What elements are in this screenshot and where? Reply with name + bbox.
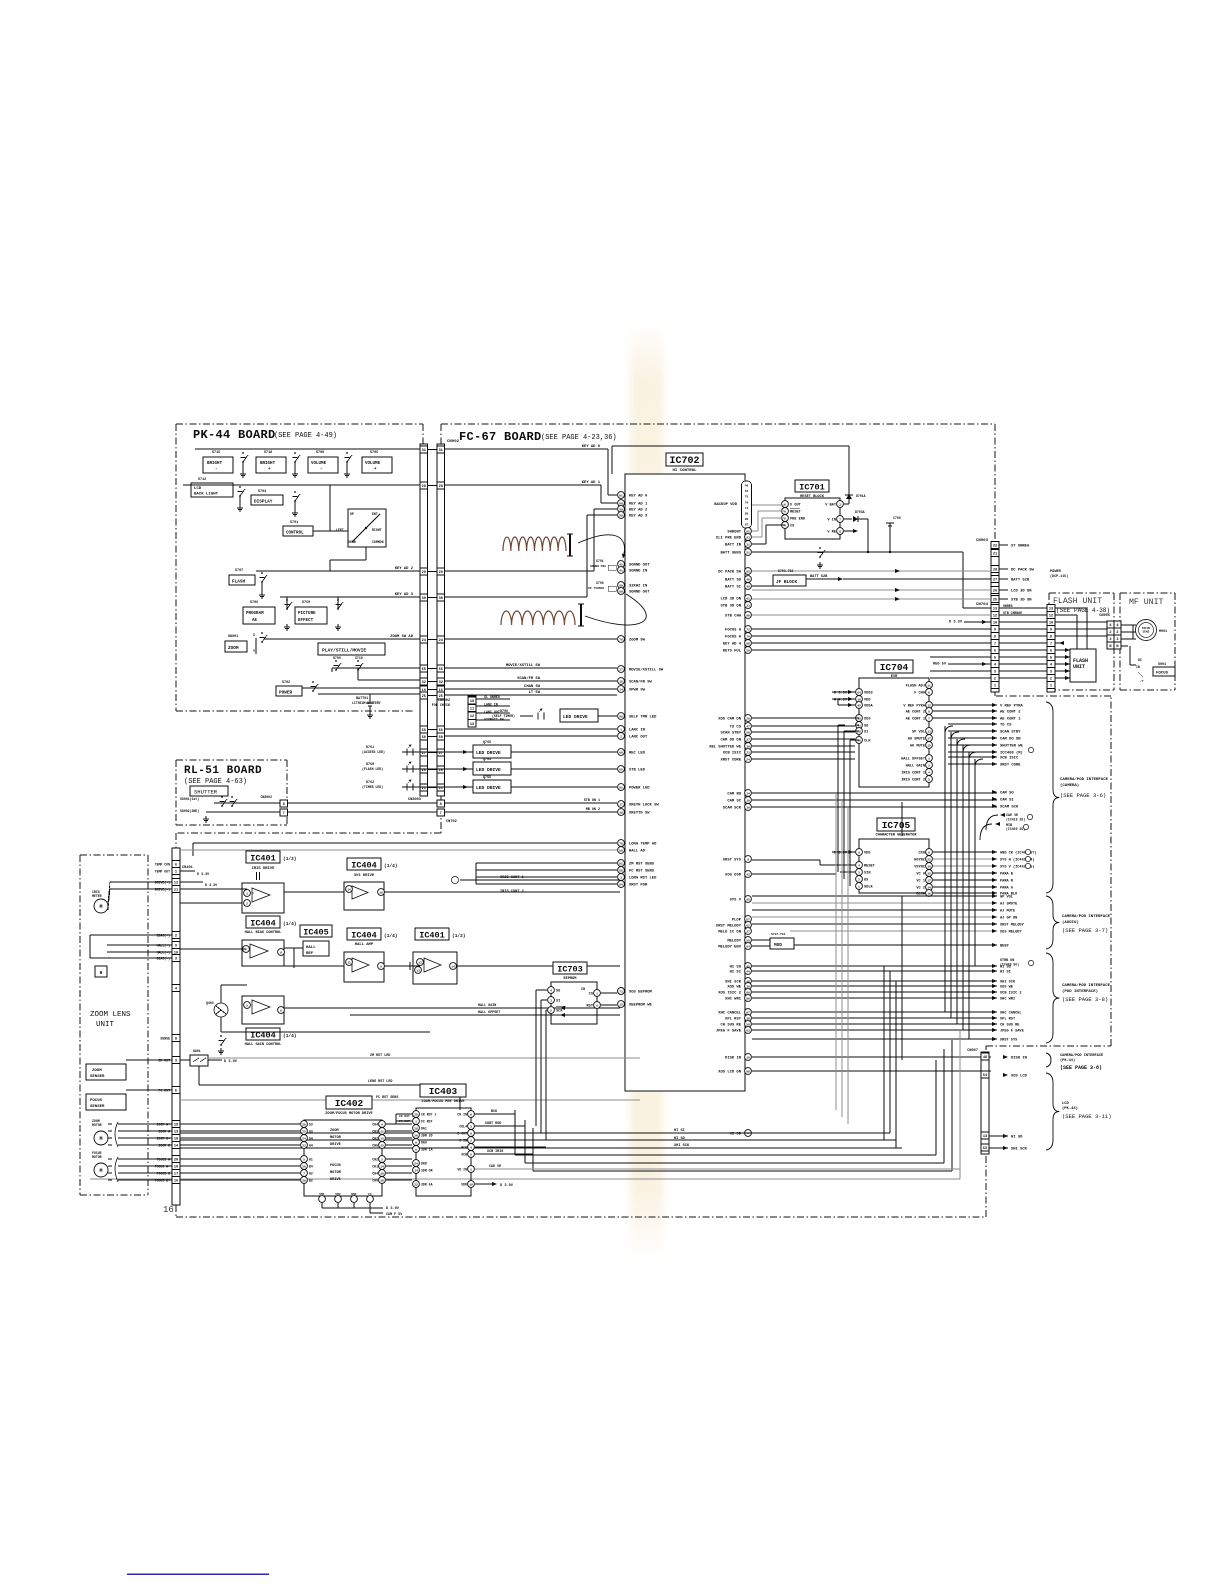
svg-text:A2: A2 [309, 1172, 313, 1176]
svg-text:55: 55 [422, 668, 426, 672]
svg-text:ENT: ENT [372, 512, 378, 516]
svg-text:(SEE PAGE 4-63): (SEE PAGE 4-63) [184, 778, 247, 786]
svg-text:ICC408 (M): ICC408 (M) [1000, 751, 1023, 756]
svg-text:FLASH ADJ: FLASH ADJ [906, 685, 925, 689]
svg-text:2: 2 [381, 1158, 383, 1161]
svg-text:23: 23 [302, 1144, 306, 1147]
svg-text:65: 65 [619, 768, 623, 771]
svg-text:CH0: CH0 [372, 1179, 378, 1183]
svg-text:IRIS DRIVE: IRIS DRIVE [252, 867, 276, 871]
svg-text:(SEE PAGE 3-7): (SEE PAGE 3-7) [1062, 927, 1108, 934]
svg-text:HI SO: HI SO [674, 1137, 686, 1141]
svg-text:RNF: RNF [351, 1193, 357, 1196]
svg-text:IC401: IC401 [419, 931, 445, 941]
svg-text:27: 27 [439, 752, 443, 756]
svg-text:8: 8 [839, 530, 841, 533]
svg-text:17: 17 [927, 737, 931, 740]
svg-text:HI SI: HI SI [1000, 971, 1011, 975]
svg-text:SONND OUT: SONND OUT [629, 564, 650, 568]
svg-text:10: 10 [469, 1183, 473, 1186]
svg-text:13: 13 [174, 1131, 178, 1135]
svg-text:S708: S708 [316, 451, 324, 455]
svg-text:LONG TEMP AD: LONG TEMP AD [629, 843, 657, 847]
svg-text:12: 12 [174, 882, 178, 886]
svg-text:XRST MELODY: XRST MELODY [716, 925, 742, 929]
svg-text:(1/4): (1/4) [283, 921, 297, 927]
svg-text:CB: CB [581, 987, 585, 991]
svg-text:56: 56 [439, 729, 443, 733]
svg-text:CN906: CN906 [1099, 614, 1110, 618]
svg-text:6: 6 [175, 864, 177, 868]
svg-text:CK RST 1: CK RST 1 [399, 1115, 414, 1118]
svg-text:27: 27 [422, 752, 426, 756]
svg-text:90: 90 [619, 584, 623, 587]
svg-text:(CAMERA): (CAMERA) [1060, 783, 1079, 788]
svg-text:2: 2 [928, 764, 930, 767]
svg-text:VDD3: VDD3 [864, 692, 873, 696]
svg-text:AU SMUTE: AU SMUTE [908, 738, 926, 742]
svg-text:FC RST SENS: FC RST SENS [376, 1096, 398, 1100]
svg-text:2: 2 [994, 678, 996, 682]
svg-text:FC: FC [368, 1193, 372, 1196]
svg-text:2: 2 [246, 902, 248, 905]
svg-text:AJ GP ON: AJ GP ON [1000, 917, 1017, 921]
svg-text:IC704: IC704 [880, 662, 909, 673]
svg-text:MELODY ENV: MELODY ENV [718, 946, 742, 950]
svg-text:6: 6 [928, 851, 930, 854]
svg-text:CN8002: CN8002 [261, 795, 273, 799]
svg-text:HALL OFFSET: HALL OFFSET [478, 1011, 500, 1015]
svg-text:6: 6 [928, 691, 930, 694]
svg-text:BEEP: BEEP [1000, 945, 1009, 949]
svg-text:98: 98 [746, 1070, 750, 1073]
svg-text:D703A: D703A [855, 510, 865, 514]
svg-text:S8002(2ND): S8002(2ND) [180, 809, 199, 813]
svg-text:MELODY: MELODY [727, 940, 741, 944]
svg-text:POWER LED: POWER LED [629, 787, 650, 791]
svg-text:(TIMER LED): (TIMER LED) [362, 785, 383, 789]
svg-text:7: 7 [1050, 643, 1052, 647]
svg-text:8: 8 [994, 636, 996, 640]
svg-text:VM1: VM1 [319, 1193, 325, 1196]
svg-text:1: 1 [858, 885, 860, 888]
svg-text:CH1: CH1 [372, 1165, 378, 1169]
svg-text:S706: S706 [250, 601, 258, 605]
svg-text:7: 7 [283, 812, 285, 816]
svg-text:13: 13 [927, 730, 931, 733]
svg-text:76: 76 [619, 638, 623, 641]
svg-text:5: 5 [303, 1158, 305, 1161]
svg-text:10: 10 [857, 698, 861, 701]
svg-text:SENSER: SENSER [90, 1105, 105, 1109]
svg-text:10: 10 [380, 1179, 384, 1182]
svg-text:S712: S712 [198, 478, 206, 482]
svg-text:DOWN: DOWN [348, 540, 356, 544]
svg-text:3V3 DRIVE: 3V3 DRIVE [354, 874, 375, 878]
svg-text:LANC IN: LANC IN [629, 729, 646, 733]
svg-text:HALL GAIN: HALL GAIN [478, 1004, 496, 1008]
svg-text:STB LED: STB LED [629, 769, 646, 773]
svg-text:2: 2 [620, 735, 622, 738]
svg-text:HI CONTROL: HI CONTROL [672, 469, 697, 473]
svg-text:XPL RST: XPL RST [725, 1018, 742, 1022]
svg-text:9: 9 [175, 945, 177, 949]
svg-text:CAMERA/POD INTERFACE: CAMERA/POD INTERFACE [1060, 1053, 1104, 1058]
svg-text:8: 8 [440, 803, 442, 807]
svg-text:86: 86 [745, 518, 749, 521]
svg-text:Q755: Q755 [483, 776, 491, 780]
svg-text:EEPROM: EEPROM [564, 977, 577, 981]
svg-text:S IN: S IN [459, 1139, 467, 1143]
svg-text:17: 17 [174, 1173, 178, 1177]
svg-text:REC LED: REC LED [629, 752, 646, 756]
svg-text:XCB ISIC 2: XCB ISIC 2 [1000, 992, 1022, 996]
svg-text:S8001(1st): S8001(1st) [180, 797, 199, 801]
svg-text:76: 76 [745, 501, 749, 504]
svg-text:XLI PRE END: XLI PRE END [716, 537, 742, 541]
svg-text:FC-67 BOARD: FC-67 BOARD [459, 430, 542, 444]
svg-text:SONND MIC: SONND MIC [590, 565, 606, 568]
svg-text:VDD: VDD [864, 852, 871, 856]
svg-text:2: 2 [1109, 631, 1111, 635]
svg-text:26: 26 [302, 1165, 306, 1168]
svg-text:ZOOM SW AD: ZOOM SW AD [390, 635, 414, 639]
svg-text:14: 14 [414, 1169, 418, 1172]
svg-text:24: 24 [746, 758, 750, 761]
svg-text:CH3: CH3 [372, 1130, 378, 1134]
svg-text:CN903: CN903 [976, 539, 989, 543]
svg-text:6: 6 [1050, 650, 1052, 654]
svg-text:VOLUME: VOLUME [311, 462, 327, 466]
svg-text:2: 2 [550, 1009, 552, 1012]
svg-text:(SEE PAGE 3-8): (SEE PAGE 3-8) [1062, 996, 1108, 1003]
svg-text:D 4.3V: D 4.3V [205, 884, 218, 888]
svg-text:20: 20 [174, 1159, 178, 1163]
svg-text:XCAM SCK: XCAM SCK [1000, 806, 1019, 810]
svg-text:HALL GAIN CONTROL: HALL GAIN CONTROL [245, 1043, 282, 1047]
svg-text:43: 43 [746, 873, 750, 876]
svg-text:MB ON 2: MB ON 2 [586, 808, 600, 812]
svg-text:CAM DO ON: CAM DO ON [720, 739, 741, 743]
svg-text:TO CS: TO CS [1000, 724, 1012, 728]
svg-text:18: 18 [619, 680, 623, 683]
svg-text:3: 3 [1109, 638, 1111, 642]
svg-text:9: 9 [380, 965, 382, 968]
svg-text:31: 31 [422, 449, 426, 453]
svg-text:13: 13 [1049, 608, 1053, 612]
svg-text:DAD: DAD [421, 1162, 427, 1166]
svg-text:15: 15 [619, 1003, 623, 1006]
svg-text:93: 93 [746, 536, 750, 539]
svg-text:IC705: IC705 [882, 820, 911, 831]
svg-text:3DR 1A: 3DR 1A [421, 1148, 433, 1152]
svg-text:12: 12 [1049, 615, 1053, 619]
svg-text:N: N [1109, 645, 1111, 649]
svg-text:DC: DC [1138, 658, 1142, 662]
svg-text:D701A: D701A [856, 494, 866, 498]
svg-text:CLK: CLK [864, 740, 871, 744]
svg-text:FOCUS: FOCUS [90, 1099, 103, 1103]
svg-text:26: 26 [414, 1134, 418, 1137]
svg-text:SI: SI [864, 731, 868, 735]
svg-text:SHUTTER: SHUTTER [194, 789, 218, 796]
svg-text:S4: S4 [309, 1137, 313, 1141]
svg-text:SONND IN: SONND IN [629, 570, 648, 574]
svg-text:16: 16 [174, 1180, 178, 1184]
svg-text:SOLK: SOLK [864, 886, 873, 890]
svg-text:94: 94 [746, 945, 750, 948]
svg-text:LED DRIVE: LED DRIVE [476, 750, 501, 756]
svg-text:CK IN: CK IN [457, 1113, 467, 1117]
svg-text:GA01: GA01 [193, 1049, 201, 1053]
svg-text:COL4: COL4 [459, 1125, 467, 1129]
svg-text:87: 87 [746, 918, 750, 921]
svg-text:DA0: DA0 [421, 1141, 427, 1145]
svg-text:LANC OUT: LANC OUT [629, 736, 648, 740]
svg-text:DC PACK SW: DC PACK SW [1011, 569, 1035, 573]
svg-text:CXO: CXO [919, 852, 926, 856]
svg-text:11: 11 [380, 1130, 384, 1133]
svg-text:73: 73 [745, 507, 749, 510]
svg-text:AE CONT 1: AE CONT 1 [1000, 718, 1021, 722]
svg-text:CN9002: CN9002 [438, 699, 450, 703]
svg-text:BRIGHT: BRIGHT [260, 462, 276, 466]
svg-text:XOS EEPROM: XOS EEPROM [629, 991, 653, 995]
svg-text:4: 4 [470, 1146, 472, 1149]
svg-text:CH5: CH5 [372, 1144, 378, 1148]
svg-text:(IC418 28): (IC418 28) [1006, 818, 1025, 822]
svg-text:S704: S704 [258, 490, 266, 494]
svg-text:55: 55 [746, 939, 750, 942]
svg-text:17: 17 [619, 803, 623, 806]
svg-text:70: 70 [746, 635, 750, 638]
svg-text:9: 9 [994, 629, 996, 633]
svg-text:FOCUS: FOCUS [1156, 672, 1169, 676]
svg-text:61: 61 [745, 490, 749, 493]
svg-text:14: 14 [619, 688, 623, 691]
svg-text:EFFECT: EFFECT [298, 619, 314, 623]
svg-text:MOTOR: MOTOR [92, 1123, 102, 1127]
svg-text:MELO IC ON: MELO IC ON [718, 931, 742, 935]
svg-text:V RE: V RE [827, 531, 836, 535]
svg-text:A1: A1 [309, 1158, 313, 1162]
svg-text:HALL: HALL [306, 946, 316, 950]
svg-text:XPWR SW: XPWR SW [629, 689, 646, 693]
svg-text:80: 80 [619, 849, 623, 852]
svg-text:DISK IN: DISK IN [1011, 1057, 1028, 1061]
svg-text:HALL GAIN: HALL GAIN [906, 765, 925, 769]
svg-text:44: 44 [746, 970, 750, 973]
svg-text:M: M [99, 904, 102, 910]
svg-text:A3: A3 [309, 1130, 313, 1134]
svg-text:SENSER: SENSER [90, 1075, 105, 1079]
svg-text:8: 8 [175, 1038, 177, 1042]
svg-text:(1/4): (1/4) [384, 933, 398, 939]
svg-text:XOS LCD ON: XOS LCD ON [718, 1071, 742, 1075]
svg-text:VDDA: VDDA [864, 705, 873, 709]
svg-text:9: 9 [470, 1132, 472, 1135]
svg-text:56: 56 [422, 729, 426, 733]
svg-text:91: 91 [619, 786, 623, 789]
svg-text:64: 64 [857, 691, 861, 694]
svg-text:3DR 3D: 3DR 3D [421, 1134, 433, 1138]
svg-text:M: M [99, 1136, 102, 1142]
svg-text:CH2: CH2 [372, 1158, 378, 1162]
svg-text:7: 7 [303, 1172, 305, 1175]
svg-text:JPEG F SAVE: JPEG F SAVE [1000, 1030, 1025, 1034]
svg-text:5: 5 [470, 1153, 472, 1156]
svg-text:48: 48 [983, 1056, 987, 1060]
svg-text:61: 61 [619, 494, 623, 497]
svg-text:3: 3 [1116, 638, 1118, 642]
svg-text:2: 2 [175, 935, 177, 939]
svg-text:XPL RST: XPL RST [1000, 1018, 1016, 1022]
svg-text:BACKUP VDD: BACKUP VDD [714, 503, 738, 507]
svg-text:CH4: CH4 [372, 1123, 378, 1127]
svg-text:S718: S718 [264, 451, 272, 455]
svg-text:KEY AD 0: KEY AD 0 [629, 495, 648, 499]
svg-text:AE CONT 2: AE CONT 2 [906, 711, 925, 715]
svg-text:26: 26 [422, 769, 426, 773]
svg-text:10: 10 [1049, 622, 1053, 626]
svg-text:D 3-3V: D 3-3V [197, 873, 210, 877]
svg-text:CAMERA/POD INTERFACE: CAMERA/POD INTERFACE [1062, 983, 1111, 988]
svg-text:82: 82 [619, 862, 623, 865]
svg-text:BATT SI: BATT SI [725, 586, 741, 590]
svg-text:AE: AE [252, 619, 258, 623]
svg-text:SCAN/FR SW: SCAN/FR SW [629, 680, 653, 685]
svg-text:XCB: XCB [461, 1153, 467, 1157]
svg-text:20: 20 [746, 717, 750, 720]
svg-text:40: 40 [746, 578, 750, 581]
svg-text:VDD: VDD [461, 1183, 467, 1187]
svg-text:XOS WE: XOS WE [1000, 986, 1014, 990]
svg-text:GND CK (IC469 57): GND CK (IC469 57) [1000, 851, 1037, 856]
svg-text:46: 46 [745, 485, 749, 488]
svg-text:(AUDIO): (AUDIO) [1062, 920, 1079, 925]
svg-text:58: 58 [746, 1023, 750, 1026]
svg-text:CAM DO ON: CAM DO ON [1000, 738, 1021, 742]
svg-text:28: 28 [993, 569, 997, 573]
svg-text:VC 0: VC 0 [916, 873, 925, 877]
svg-text:S791: S791 [290, 521, 298, 525]
svg-text:5: 5 [1050, 657, 1052, 661]
svg-text:10: 10 [174, 1166, 178, 1170]
svg-text:SIN: SIN [864, 872, 870, 876]
svg-text:M901: M901 [1159, 630, 1167, 634]
svg-text:26: 26 [993, 590, 997, 594]
svg-text:(1/2): (1/2) [452, 933, 466, 939]
svg-text:SHDONT: SHDONT [727, 531, 741, 535]
svg-text:M: M [99, 1168, 102, 1174]
svg-text:LED DRIVE: LED DRIVE [563, 714, 588, 720]
svg-text:27: 27 [619, 668, 623, 671]
svg-text:FC RST SENS: FC RST SENS [629, 870, 655, 874]
svg-text:(1/2): (1/2) [283, 856, 297, 862]
svg-text:8: 8 [283, 803, 285, 807]
svg-text:AE CONT 2: AE CONT 2 [1000, 711, 1021, 715]
svg-text:19: 19 [927, 865, 931, 868]
svg-text:6: 6 [994, 650, 996, 654]
svg-text:17: 17 [927, 879, 931, 882]
svg-text:XHI SCK: XHI SCK [1011, 1148, 1028, 1152]
svg-text:EVR: EVR [891, 675, 898, 679]
svg-text:33: 33 [746, 604, 750, 607]
svg-text:FOCUS: FOCUS [330, 1164, 342, 1168]
svg-text:97: 97 [746, 1011, 750, 1014]
svg-text:10: 10 [379, 891, 383, 894]
svg-text:FOCUS A: FOCUS A [725, 636, 742, 640]
svg-text:(SEE PAGE 4-49): (SEE PAGE 4-49) [274, 432, 337, 440]
svg-text:84: 84 [619, 883, 623, 886]
svg-text:KETS FUL: KETS FUL [723, 650, 742, 654]
svg-text:XOS ISIC 2: XOS ISIC 2 [718, 992, 742, 996]
svg-text:34: 34 [746, 792, 750, 795]
svg-text:62: 62 [746, 924, 750, 927]
svg-text:VDD: VDD [864, 699, 871, 703]
svg-text:XCB ISIC: XCB ISIC [723, 752, 742, 756]
svg-text:58: 58 [619, 715, 623, 718]
svg-text:S710: S710 [355, 656, 363, 660]
svg-text:92: 92 [746, 530, 750, 533]
svg-text:V OUT: V OUT [790, 504, 802, 508]
svg-text:(SEE PAGE 3-8): (SEE PAGE 3-8) [1060, 1065, 1102, 1071]
svg-text:28: 28 [302, 1123, 306, 1126]
svg-text:-: - [320, 468, 323, 472]
svg-text:XL UNREG: XL UNREG [484, 695, 500, 699]
svg-text:80: 80 [745, 513, 749, 516]
svg-text:VC 2: VC 2 [916, 887, 925, 891]
svg-text:XOS OSD: XOS OSD [725, 874, 742, 878]
svg-text:9: 9 [381, 1123, 383, 1126]
svg-text:95: 95 [746, 898, 750, 901]
svg-text:GP VOL: GP VOL [1000, 896, 1013, 900]
svg-text:AE CONT 1: AE CONT 1 [906, 718, 925, 722]
svg-text:12: 12 [927, 704, 931, 707]
svg-text:XOBT ROD: XOBT ROD [485, 1122, 501, 1126]
svg-text:BCK: BCK [491, 1110, 498, 1114]
svg-text:V BAT: V BAT [825, 504, 837, 508]
svg-text:S769: S769 [302, 601, 310, 605]
svg-text:7: 7 [994, 643, 996, 647]
svg-text:IRIS CONT 1: IRIS CONT 1 [901, 772, 925, 776]
svg-text:(SEE PAGE 3-11): (SEE PAGE 3-11) [1062, 1113, 1112, 1120]
svg-text:SCAM SCK: SCAM SCK [723, 807, 742, 811]
svg-text:IN: IN [1136, 665, 1140, 669]
svg-text:3DR OR: 3DR OR [421, 1169, 433, 1173]
svg-text:14: 14 [451, 965, 455, 968]
svg-text:59: 59 [619, 508, 623, 511]
svg-text:DISPLAY: DISPLAY [254, 500, 273, 505]
svg-text:8: 8 [280, 951, 282, 954]
svg-text:RL-51 BOARD: RL-51 BOARD [184, 765, 262, 777]
svg-text:ZOOM/FOCUS PRE DRIVE: ZOOM/FOCUS PRE DRIVE [421, 1099, 465, 1104]
svg-text:98: 98 [746, 642, 750, 645]
svg-text:SI: SI [556, 1000, 560, 1004]
svg-text:SW901: SW901 [228, 635, 238, 639]
svg-text:24: 24 [302, 1137, 306, 1140]
svg-text:16: 16 [746, 1056, 750, 1059]
svg-text:96: 96 [746, 997, 750, 1000]
svg-text:SENS: SENS [1143, 631, 1150, 634]
svg-text:STB ON 1: STB ON 1 [584, 799, 600, 803]
svg-text:XHC CANCEL: XHC CANCEL [718, 1012, 742, 1016]
svg-text:6: 6 [415, 1148, 417, 1151]
svg-text:XHC CANCEL: XHC CANCEL [1000, 1012, 1022, 1016]
svg-text:55: 55 [439, 668, 443, 672]
svg-text:XOS WE: XOS WE [727, 986, 741, 990]
svg-text:14: 14 [347, 888, 351, 891]
